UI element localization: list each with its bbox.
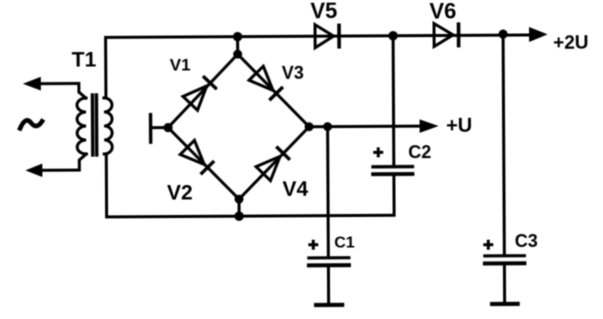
svg-text:V2: V2 <box>167 181 193 204</box>
svg-text:V6: V6 <box>429 0 456 24</box>
svg-text:C2: C2 <box>408 142 431 162</box>
svg-text:C3: C3 <box>515 231 538 251</box>
svg-text:V4: V4 <box>282 178 308 201</box>
svg-text:T1: T1 <box>72 48 97 71</box>
svg-text:V5: V5 <box>310 0 337 23</box>
svg-text:+2U: +2U <box>553 33 589 54</box>
svg-text:V3: V3 <box>282 63 304 83</box>
svg-text:+U: +U <box>446 115 472 137</box>
svg-text:C1: C1 <box>334 234 355 251</box>
svg-text:V1: V1 <box>170 55 191 74</box>
